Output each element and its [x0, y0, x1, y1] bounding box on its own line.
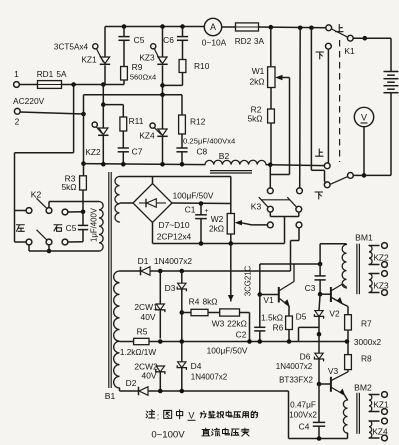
svg-text:D5: D5	[296, 312, 307, 322]
svg-text:V1: V1	[263, 295, 274, 305]
wire R12 branch	[181, 95, 183, 115]
wire bus F to D5 jog	[298, 327, 300, 341]
junction voltmeter/battery/K1 pole2	[362, 173, 367, 178]
junction T/C5	[122, 24, 127, 29]
transformer B1 primary	[99, 202, 103, 252]
svg-text:1N4007x2: 1N4007x2	[191, 373, 228, 382]
wire W3 wiper feed	[230, 244, 232, 302]
svg-text:R12: R12	[190, 117, 206, 127]
capacitor C1 100uF/50V	[200, 204, 202, 215]
fuse RD2 3A	[236, 23, 259, 31]
svg-text:R10: R10	[194, 61, 210, 71]
svg-text:1: 1	[14, 69, 19, 79]
svg-text:2kΩ: 2kΩ	[209, 224, 224, 234]
svg-text:R4: R4	[189, 297, 200, 307]
svg-text:22kΩ: 22kΩ	[227, 319, 247, 329]
svg-text:D2: D2	[126, 378, 137, 388]
wire bridge minus bus	[152, 223, 154, 244]
battery	[390, 38, 392, 71]
thyristor KZ3	[162, 27, 164, 58]
junction R4 tap	[180, 310, 185, 315]
svg-text:W2: W2	[211, 214, 224, 224]
wire KZ2 column	[102, 85, 104, 129]
note line 1	[146, 410, 155, 418]
wire bus A (phase from RD1)	[62, 84, 125, 86]
svg-text:3000x2: 3000x2	[354, 337, 382, 347]
transformer BM1 primary	[342, 245, 346, 289]
svg-text:KZ3: KZ3	[373, 281, 389, 291]
wire KZ1 cathode to bus A	[104, 65, 106, 84]
transformer B2 primary coil	[205, 160, 266, 164]
wire bus B (neutral)	[83, 95, 85, 114]
dashed linkage K1	[339, 40, 341, 162]
svg-text:RD1: RD1	[37, 69, 54, 79]
svg-text:KZ4: KZ4	[139, 131, 155, 141]
potentiometer W2 2k	[227, 214, 234, 235]
switch K3 blades	[259, 197, 268, 207]
resistor R4 8k	[182, 312, 191, 314]
svg-text:40V: 40V	[142, 371, 157, 381]
capacitor C5	[123, 27, 125, 37]
bridge rectifier D7~D10	[133, 184, 172, 223]
svg-text:8kΩ: 8kΩ	[202, 297, 217, 307]
capacitor C6	[182, 27, 184, 37]
junction W2 bottom	[229, 241, 234, 246]
junction bus C / C8	[180, 162, 185, 167]
svg-text:5kΩ: 5kΩ	[61, 182, 76, 192]
capacitor C8	[176, 147, 187, 149]
svg-text:R5: R5	[137, 327, 148, 337]
wire bus G	[148, 390, 289, 392]
svg-text:K2: K2	[31, 190, 42, 200]
junction bus B / KZ4 anode	[160, 93, 165, 98]
resistor R12	[179, 115, 186, 134]
junction bus F 2CW1	[158, 339, 163, 344]
transformer BM1 secondary KZ3	[369, 273, 380, 275]
svg-text:B2: B2	[219, 151, 230, 161]
capacitor C7	[118, 147, 129, 149]
svg-text:D7~D10: D7~D10	[159, 220, 190, 230]
svg-text:2CW1: 2CW1	[134, 302, 158, 312]
wire AC to bridge top	[122, 176, 231, 178]
svg-text:100μF/50V: 100μF/50V	[207, 346, 248, 356]
wire K3 common	[269, 212, 271, 217]
svg-text:1.5kΩ: 1.5kΩ	[261, 313, 283, 323]
zener D5	[319, 294, 320, 310]
transformer B1 secondary upper	[115, 177, 120, 223]
wire K2 bottom common	[28, 245, 30, 251]
switch K1 pole1 moving contact	[347, 35, 353, 41]
capacitor C2	[259, 295, 261, 328]
zener 2CW1 40V	[159, 271, 161, 304]
svg-text:C7: C7	[132, 147, 143, 157]
wire D3 column to bus	[181, 313, 183, 342]
resistor R7	[345, 315, 352, 330]
wire K1 pole1 left feeder to K3	[299, 28, 302, 188]
svg-text:V2: V2	[329, 309, 340, 319]
terminal 1	[14, 82, 20, 88]
transformer BM2 core	[356, 393, 358, 434]
svg-text:V: V	[188, 411, 195, 421]
transformer BM2 secondary KZ1	[369, 394, 380, 396]
wire K3 to W2 wiper	[252, 224, 268, 226]
junction T/C6	[180, 24, 185, 29]
svg-text:C2: C2	[236, 330, 247, 340]
svg-text:R7: R7	[361, 319, 372, 329]
svg-text:W3: W3	[212, 319, 225, 329]
junction bus H C4	[317, 436, 322, 441]
junction KZ3/R10 tap	[160, 83, 165, 88]
svg-text:KZ2: KZ2	[373, 253, 389, 263]
wire RD2 to K1	[259, 26, 327, 29]
wire W3 to bus	[240, 312, 250, 314]
diode D1 1N4007x2	[140, 267, 142, 276]
svg-text:R9: R9	[132, 62, 143, 72]
junction bus F R6	[287, 339, 292, 344]
wire K2 left rail	[73, 85, 75, 153]
svg-text:KZ3: KZ3	[139, 53, 155, 63]
svg-text:R8: R8	[361, 354, 372, 364]
wire node to K3	[268, 163, 273, 168]
wire D6 to V3 base	[318, 359, 320, 384]
svg-text:560Ωx4: 560Ωx4	[130, 73, 156, 82]
junction bus A / KZ1-KZ2 midpoint	[101, 82, 106, 87]
transformer B2 core	[210, 170, 252, 172]
junction terminal2 column	[81, 112, 86, 117]
wire W2 top	[230, 177, 232, 214]
svg-text:BM2: BM2	[354, 383, 372, 393]
wire V1 emitter to R6	[288, 306, 290, 316]
svg-text:W1: W1	[252, 66, 265, 76]
svg-text:D3: D3	[165, 283, 176, 293]
wire K1 pole1 right feeder	[310, 28, 312, 171]
svg-text:C1: C1	[185, 205, 196, 215]
svg-text:KZ2: KZ2	[85, 147, 101, 157]
wire bridge left to B1	[120, 202, 134, 204]
svg-text:BM1: BM1	[355, 233, 373, 243]
svg-text:C3: C3	[305, 283, 316, 293]
svg-text:0~100V: 0~100V	[151, 430, 185, 441]
svg-text:5kΩ: 5kΩ	[247, 114, 262, 124]
svg-text:RD2: RD2	[235, 36, 252, 46]
junction T/KZ3	[160, 24, 165, 29]
switch K2 blades	[37, 198, 47, 208]
wire V1 supply riser	[290, 264, 292, 271]
svg-text:A: A	[210, 22, 216, 32]
switch K1 pole2 contact up	[324, 163, 330, 169]
transistor V2	[320, 293, 331, 295]
svg-text:D6: D6	[300, 352, 311, 362]
svg-text:5A: 5A	[56, 69, 67, 79]
wire V1 collector net	[260, 263, 320, 265]
svg-text:KZ1: KZ1	[373, 400, 389, 410]
capacitor C3	[319, 264, 321, 276]
capacitor C5b 1uF/400V	[82, 212, 84, 226]
transistor V3	[319, 383, 331, 385]
wire BM1 top feed	[319, 244, 321, 264]
svg-text:KZ1: KZ1	[81, 55, 97, 65]
junction C1 minus	[199, 241, 204, 246]
svg-text::: :	[157, 412, 160, 422]
wire bus C	[84, 164, 206, 165]
resistor R8	[347, 342, 349, 355]
svg-text:C8: C8	[197, 147, 208, 157]
transformer B1 core	[108, 172, 110, 388]
zener 2CW2 40V	[156, 366, 164, 372]
diode D2	[138, 387, 140, 396]
thyristor KZ4	[162, 95, 164, 129]
svg-text:3A: 3A	[254, 36, 265, 46]
svg-text:C6: C6	[163, 35, 174, 45]
wire D1 bus	[150, 270, 291, 272]
switch K1 pole1 contact down	[326, 43, 332, 49]
junction bus F C2	[258, 339, 263, 344]
wire KZ1 anode column	[104, 27, 106, 58]
junction C1 plus	[199, 201, 204, 206]
svg-text:3CT5Ax4: 3CT5Ax4	[54, 43, 89, 52]
svg-text:D1: D1	[138, 256, 149, 266]
resistor R9 560ohm	[121, 67, 128, 81]
wire B1 bottom to D2	[119, 388, 121, 391]
wire K3 lower right branch	[298, 228, 300, 241]
transformer BM1 secondary KZ2	[369, 245, 380, 247]
svg-text:1N4007x2: 1N4007x2	[154, 256, 193, 266]
svg-text:0~10A: 0~10A	[202, 38, 227, 48]
junction bus G D4	[180, 389, 185, 394]
terminal 2	[14, 108, 20, 114]
potentiometer W1 2k	[270, 27, 272, 67]
svg-text:40V: 40V	[141, 312, 156, 322]
svg-text:100μF/50V: 100μF/50V	[173, 191, 214, 201]
zener D3	[181, 271, 183, 283]
resistor R10	[179, 60, 186, 73]
resistor R6 1.5k	[286, 316, 293, 330]
svg-text:2kΩ: 2kΩ	[249, 77, 264, 87]
junction bus F R7/R8	[345, 339, 350, 344]
capacitor C4 0.47uF/100Vx2	[318, 384, 320, 422]
junction K1 feeders	[298, 26, 303, 31]
wire bus G to bus H jog	[288, 391, 290, 439]
junction bus C / C7	[121, 162, 126, 167]
svg-text:D4: D4	[191, 361, 202, 371]
wire K2 right-top to R3 node	[68, 211, 83, 213]
voltmeter V	[354, 107, 373, 126]
wire rectifier plus bus (D1 line)	[120, 270, 141, 272]
resistor R11	[120, 117, 127, 131]
zener D4	[181, 342, 183, 362]
junction node T2 (W1 top)	[269, 25, 274, 30]
transformer BM1 core	[356, 244, 358, 295]
junction bus C left	[81, 161, 86, 166]
junction V2 base	[318, 292, 323, 297]
junction D5/D6 jog	[317, 332, 322, 337]
svg-text:AC220V: AC220V	[13, 96, 45, 106]
svg-text:K1: K1	[344, 46, 355, 56]
svg-text:0.47μF: 0.47μF	[290, 401, 316, 410]
svg-text:C5: C5	[134, 35, 145, 45]
potentiometer W3 22k	[220, 309, 240, 316]
svg-text:R11: R11	[129, 116, 144, 126]
svg-text:+: +	[204, 208, 208, 215]
junction K1 to battery	[363, 36, 368, 41]
wire bus C to K1 pole2 up	[270, 164, 324, 167]
svg-text:R6: R6	[273, 323, 284, 333]
svg-text:0.25μF/400Vx4: 0.25μF/400Vx4	[183, 137, 236, 146]
switch K1 pole2 contact down	[324, 182, 330, 188]
svg-text:C5: C5	[66, 223, 77, 233]
transistor V1	[260, 294, 279, 296]
svg-text:1N4007x2: 1N4007x2	[276, 362, 313, 371]
junction bus F W3	[247, 339, 252, 344]
wire W1 wiper drop	[289, 78, 291, 175]
svg-text:1.2kΩ/1W: 1.2kΩ/1W	[120, 348, 156, 357]
wire terminal2 down to R3	[83, 114, 85, 164]
resistor R5 1.2k/1W	[134, 338, 149, 344]
wire K1 pole1-down to pole2-up	[327, 49, 329, 163]
svg-text:3CG21C: 3CG21C	[244, 265, 253, 296]
switch K1 pole1 contact up	[326, 25, 332, 31]
resistor R2 5k	[270, 88, 272, 110]
label left tap	[16, 225, 24, 232]
transformer B1 secondary lower	[114, 271, 120, 388]
svg-text:V: V	[361, 113, 367, 123]
fuse RD1 5A	[38, 81, 62, 89]
transformer BM2 primary	[343, 400, 347, 433]
svg-text:KZ4: KZ4	[372, 427, 388, 437]
svg-text:2CP12x4: 2CP12x4	[157, 232, 192, 242]
zener D6	[318, 334, 320, 353]
switch K3 contacts	[267, 188, 273, 194]
thyristor KZ2	[99, 128, 108, 135]
wire top bus T	[105, 26, 205, 28]
wire bus F	[120, 341, 134, 343]
junction bus F D3/D4	[180, 339, 185, 344]
svg-text:2: 2	[15, 117, 20, 127]
wire K2 mid-top to B1 primary top	[48, 202, 50, 209]
junction 2CW1 column top	[158, 269, 163, 274]
svg-text:C4: C4	[299, 422, 310, 432]
wire R11 branch	[103, 104, 123, 106]
wire bridge plus output	[172, 202, 231, 205]
ammeter A 0-10A	[204, 18, 221, 35]
wire KZ3 cathode	[162, 65, 164, 95]
svg-text:V3: V3	[328, 366, 339, 376]
switch K2 contacts	[26, 208, 32, 214]
switch K1 pole2 moving contact	[348, 173, 354, 179]
junction D3 column top	[180, 269, 185, 274]
resistor R3 5k	[83, 164, 85, 176]
transformer BM2 secondary KZ4	[369, 420, 380, 422]
junction R3 / K2 right-top / C5b	[81, 210, 86, 215]
wire V1 base column	[259, 264, 261, 295]
junction bus G 2CW2	[158, 389, 163, 394]
label right tap	[54, 225, 62, 232]
svg-text:K3: K3	[251, 202, 262, 212]
svg-text:1μF/400V: 1μF/400V	[90, 207, 99, 242]
junction bus C / KZ4	[160, 162, 165, 167]
thyristor KZ1	[100, 57, 109, 64]
svg-text:BT33FX2: BT33FX2	[279, 376, 313, 385]
svg-text:100Vx2: 100Vx2	[289, 411, 317, 420]
svg-text:B1: B1	[105, 391, 116, 401]
junction bus C / KZ2	[101, 162, 106, 167]
junction bus A / K2 feeder	[71, 82, 76, 87]
